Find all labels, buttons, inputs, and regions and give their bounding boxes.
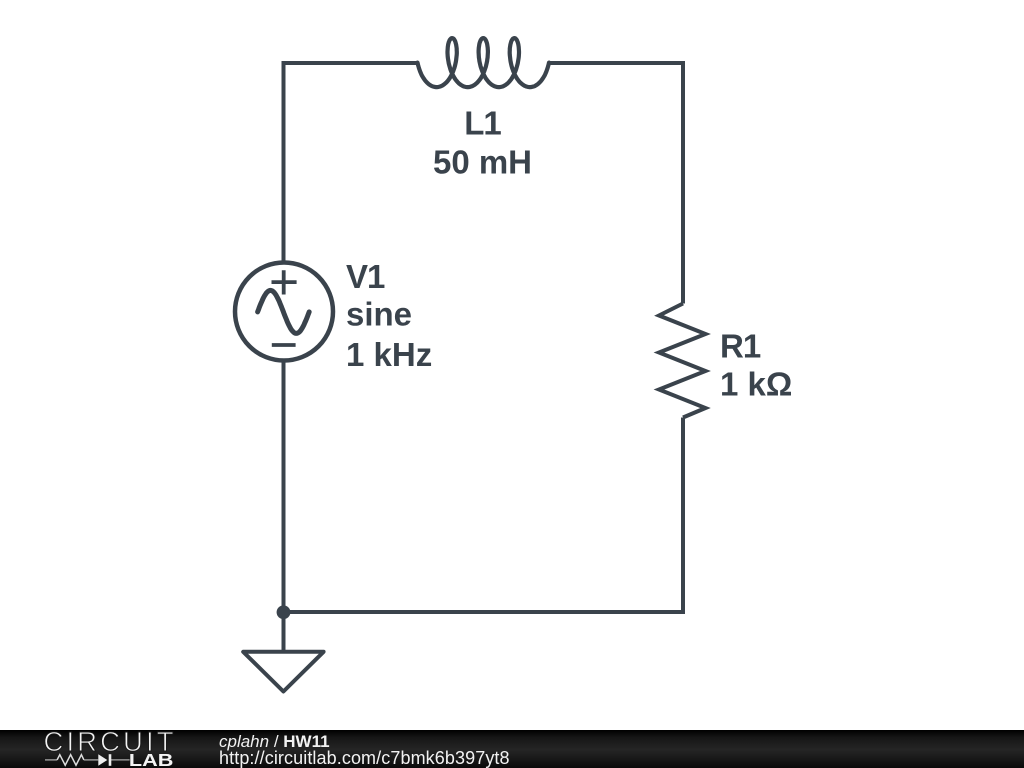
V1 minus sign — [272, 343, 296, 347]
wire: top-left corner to inductor L1 left terminal — [282, 61, 418, 65]
voltage source V1 circle — [235, 263, 333, 361]
logo resistor zigzag — [57, 755, 84, 766]
logo diode triangle — [98, 754, 107, 766]
wire: right side down to resistor R1 top — [681, 63, 685, 304]
wire: node to ground — [282, 612, 286, 652]
wire left: source bottom to node — [282, 361, 286, 613]
node junction dot — [277, 605, 291, 619]
svg-text:http://circuitlab.com/c7bmk6b3: http://circuitlab.com/c7bmk6b397yt8 — [219, 748, 510, 768]
wire: inductor L1 right terminal to top-right corner — [549, 61, 685, 65]
logo wire middle — [84, 759, 98, 761]
wire: resistor R1 bottom to bottom-right corner — [681, 418, 685, 615]
V1 sine waveform glyph — [258, 290, 310, 333]
inductor L1 — [418, 38, 550, 87]
wire: bottom run from corner to node A — [284, 610, 686, 614]
logo wire right — [111, 759, 130, 761]
wire: V1 top terminal up the left side — [282, 63, 286, 263]
resistor R1 — [659, 304, 706, 418]
footer bar — [0, 730, 1024, 768]
logo resistor-diode squiggle lead wire — [45, 755, 130, 766]
logo diode cathode bar — [109, 754, 112, 766]
ground symbol triangle — [243, 652, 323, 692]
V1 plus sign — [272, 270, 297, 294]
svg-text:LAB: LAB — [129, 750, 174, 768]
